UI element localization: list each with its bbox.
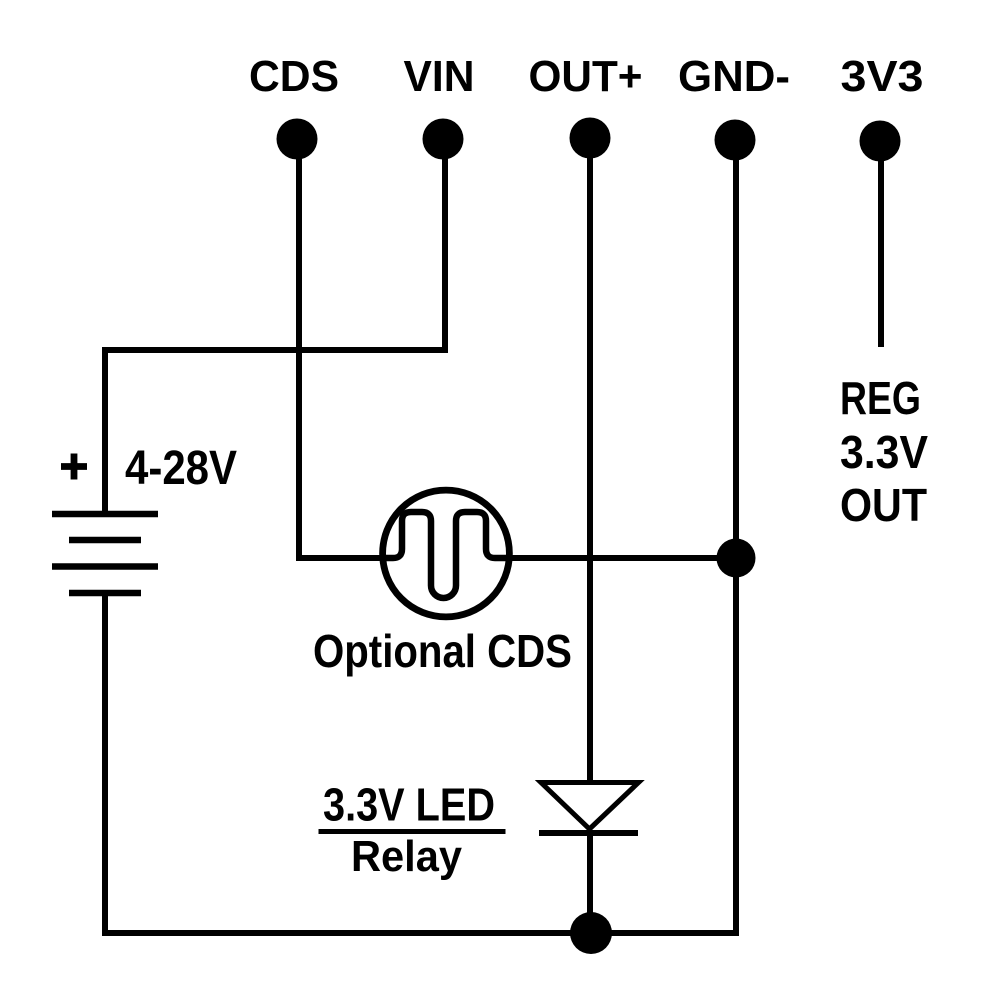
- wire battery negative to bottom rail to GND: [105, 150, 736, 933]
- svg-text:Relay: Relay: [351, 832, 462, 881]
- battery BT1 plate short bottom: [69, 590, 141, 597]
- terminal pin GND-: [715, 120, 756, 161]
- terminal pin 3V3: [860, 121, 901, 162]
- svg-text:OUT: OUT: [840, 479, 927, 531]
- photocell LDR1 resistive squiggle: [383, 512, 509, 598]
- battery BT1 plate long top: [52, 511, 158, 518]
- battery BT1 plate long: [52, 563, 158, 570]
- svg-text:4-28V: 4-28V: [125, 442, 237, 495]
- junction dot photocell to GND: [717, 539, 756, 578]
- svg-text:VIN: VIN: [404, 52, 475, 101]
- photocell LDR1 body circle: [383, 490, 510, 617]
- svg-text:Optional CDS: Optional CDS: [313, 625, 572, 677]
- terminal pin OUT+: [570, 118, 611, 159]
- wire OUT+ down to LED anode: [587, 139, 593, 782]
- LED D1 cathode bar: [539, 830, 638, 836]
- LED label divider line: [319, 829, 506, 834]
- junction dot bottom rail: [570, 912, 612, 954]
- battery BT1 plate short: [69, 537, 141, 544]
- terminal pin CDS: [277, 119, 318, 160]
- wire photocell right lead to GND junction: [509, 555, 736, 561]
- LED D1 triangle: [541, 783, 639, 830]
- wire CDS down to photocell lead: [299, 139, 383, 558]
- svg-text:GND-: GND-: [678, 52, 790, 101]
- svg-text:CDS: CDS: [249, 52, 339, 101]
- svg-text:3.3V LED: 3.3V LED: [323, 779, 495, 831]
- wire LED cathode down to bottom junction: [587, 833, 593, 933]
- svg-text:3V3: 3V3: [841, 52, 924, 101]
- svg-text:3.3V: 3.3V: [840, 426, 928, 478]
- battery BT1 plus sign: [61, 454, 87, 480]
- wire 3V3 stub: [878, 139, 884, 347]
- terminal pin VIN: [423, 119, 464, 160]
- svg-text:REG: REG: [840, 372, 921, 424]
- svg-text:OUT+: OUT+: [529, 52, 643, 101]
- wire VIN to battery positive: [105, 139, 445, 511]
